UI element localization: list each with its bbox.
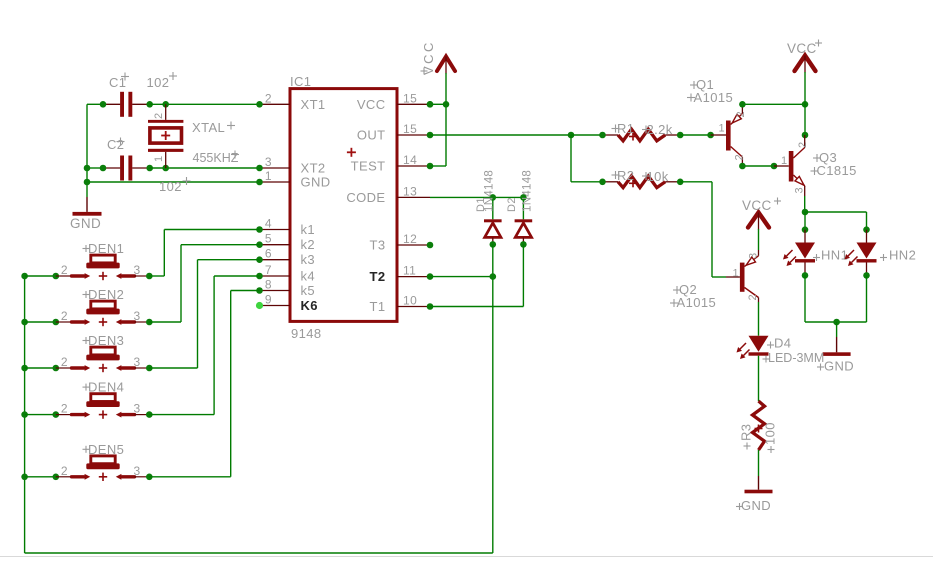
pin name XT2 [301,161,326,176]
svg-text:R3: R3 [739,424,754,441]
node pin 12 right [427,242,434,249]
svg-text:1N4148: 1N4148 [522,170,534,212]
wire rail to DEN2 [25,321,56,323]
node VCC pin15 a [427,101,434,108]
light arrows D4 [737,343,750,359]
wire HN1 down [804,275,806,322]
label DEN2 [83,287,125,302]
node D1 top junction [490,194,497,201]
label D4 [767,336,791,351]
value 102 of C1 [147,72,178,90]
ground GND bottom [745,476,773,493]
pin 3 label DEN5 [134,464,141,478]
wire vertical down to R2 row [570,135,572,182]
node DEN4 pin2 [53,411,60,418]
svg-text:1: 1 [265,169,272,183]
wire TEST-to-VCC rail [430,165,446,167]
node pin 3 of IC1 [256,165,263,172]
wire DEN1 to IC pin [164,229,259,231]
node Q1 base pin [707,132,714,139]
pin name T1 [370,299,386,314]
value A1015 of Q1 [687,90,733,105]
svg-text:1N4148: 1N4148 [484,170,496,212]
wire button common rail [24,276,26,553]
pin 1 label Q2 [732,268,739,280]
svg-text:A1015: A1015 [694,90,734,105]
pin 1 GND of IC1 [260,169,291,183]
wire XT1 row C1-to-IC [150,103,260,105]
node DEN2 pin3 [146,319,153,326]
svg-text:DEN2: DEN2 [88,287,124,302]
wire VCC right vertical [804,72,806,135]
wire bottom bus [25,552,493,554]
svg-text:2: 2 [61,309,68,323]
svg-text:3: 3 [748,252,760,259]
pin 2 label Q1 collector (rotated) [734,154,746,161]
value 102 of C2 [159,177,191,194]
wire rail to DEN5 [25,476,56,478]
label R1 [612,121,635,136]
wire LED bottom rail [805,321,867,323]
node pin 8 of IC1 [256,287,263,294]
node R2 left pin [599,179,606,186]
label XTAL [192,120,235,135]
wire Q2 collector to D4 [758,302,760,336]
pin 11 of IC1 right [397,264,430,278]
label GND bottom [736,498,771,513]
node pin 7 of IC1 [256,273,263,280]
wire DEN3 column up [197,260,199,368]
svg-text:102: 102 [147,75,170,90]
node pin 6 of IC1 [256,256,263,263]
svg-text:12: 12 [403,232,417,246]
svg-text:2: 2 [61,355,68,369]
wire DEN1 to column [149,275,164,277]
transistor Q2 A1015 [726,250,759,302]
value C1815 of Q3 [811,163,857,178]
svg-text:5: 5 [265,232,272,246]
svg-text:k2: k2 [301,237,316,252]
wire D2 bottom vertical [522,244,524,306]
pin name k5 [301,283,316,298]
svg-text:GND: GND [741,498,771,513]
svg-text:2.2k: 2.2k [647,122,673,137]
wire IC GND pin row [87,181,260,183]
node HN2 anode pin [863,226,870,233]
svg-text:R2: R2 [617,168,634,183]
svg-text:10: 10 [403,294,417,308]
node pin 11 right [427,273,434,280]
wire R2 to corner [680,181,712,183]
pin name TEST [351,159,386,174]
pin 15 of IC1 right [397,122,430,136]
svg-text:455KHZ: 455KHZ [193,151,239,165]
wire R3 to GND [758,450,760,476]
value A1015 of Q2 [670,295,716,310]
pin 2 label Q3 collector (rotated) [797,141,809,148]
node Q3 emitter junction [802,209,809,216]
label GND right [817,359,854,374]
wire rail to DEN1 [25,275,56,277]
label DEN5 [83,442,125,457]
svg-text:XT1: XT1 [301,97,326,112]
supply VCC top [437,57,455,74]
label HN1 [813,248,848,263]
value 1N4148 of D2 (rotated) [522,170,534,212]
node DEN3 pin3 [146,365,153,372]
svg-text:DEN1: DEN1 [88,241,124,256]
node rail-C2 junction [84,165,91,172]
transistor Q3 C1815 [774,135,805,196]
wire CODE pin13 [430,196,523,198]
svg-text:7: 7 [265,263,272,277]
svg-text:VCC: VCC [421,40,436,75]
pushbutton DEN5 [56,456,150,481]
node Q1 collector [739,163,746,170]
label Q3 [813,150,837,165]
wire HN2 corner down [866,212,868,230]
svg-text:15: 15 [403,91,417,105]
node Q3 collector junction [802,132,809,139]
node XTAL pin1 junction [162,165,169,172]
svg-text:DEN4: DEN4 [88,380,124,395]
wire DEN4 to column [149,414,214,416]
label VCC mid [742,198,781,214]
wire D2 top lead [522,197,524,219]
svg-text:k4: k4 [301,269,316,284]
pin name OUT [357,128,386,143]
svg-text:3: 3 [134,263,141,277]
pin 2 label DEN3 [61,355,68,369]
svg-text:2: 2 [747,294,759,301]
wire D1 bottom vertical to bottom bus [492,244,494,553]
svg-text:XT2: XT2 [301,161,326,176]
label IC1 [290,74,311,89]
wire XT2 row C2-to-IC [150,167,260,169]
node Q3 base pin [771,163,778,170]
svg-text:2: 2 [61,464,68,478]
svg-text:HN1: HN1 [821,248,848,263]
node C1 left pin [100,101,107,108]
wire VCC top vertical [445,73,447,166]
node R1 left pin [599,132,606,139]
svg-text:D2: D2 [506,197,518,212]
svg-text:13: 13 [403,184,417,198]
node DEN5 pin2 [53,474,60,481]
wire VCC-to-pin15 [430,103,446,105]
svg-text:3: 3 [134,309,141,323]
svg-text:1: 1 [153,155,165,162]
ground GND right [823,322,851,356]
svg-text:K6: K6 [301,298,318,313]
pin 13 of IC1 right [397,184,430,198]
pin 14 of IC1 right [397,153,430,167]
label C2 [107,137,125,152]
pushbutton DEN3 [56,347,150,372]
label Q2 [673,282,697,297]
node pin 9 unconnected (bright) [256,302,263,309]
node pin 5 of IC1 [256,241,263,248]
supply VCC right [795,56,816,73]
node R1 right pin [677,132,684,139]
svg-text:8: 8 [265,278,272,292]
node C2 right pin [146,165,153,172]
svg-text:GND: GND [824,359,854,374]
svg-text:k1: k1 [301,222,316,237]
node DEN1 pin3 [146,273,153,280]
wire into Q2 base [712,276,726,278]
wire to R1 left pin [571,134,603,136]
node D2 bottom [520,241,527,248]
pin 3 label DEN4 [134,402,141,416]
node rail DEN4 [21,411,28,418]
wire T1 pin10 row [430,306,523,308]
svg-text:k3: k3 [301,252,316,267]
node DEN1 pin2 [53,273,60,280]
svg-text:102: 102 [159,179,182,194]
svg-text:DEN3: DEN3 [88,333,124,348]
resistor R1 2.2k [603,129,681,141]
label D2 (rotated) [506,197,518,212]
node XTAL pin2 junction [162,101,169,108]
node pin 2 of IC1 [256,101,263,108]
value 100 of R3 (rotated) [763,422,778,453]
svg-text:3: 3 [134,402,141,416]
svg-text:GND: GND [70,216,101,231]
label HN2 [880,248,916,263]
wire DEN4 to IC pin [214,275,259,277]
pin 2 label of XTAL [153,112,165,119]
pin 2 label DEN1 [61,263,68,277]
pin 7 k4 of IC1 [260,263,291,277]
node pin 14 right [427,163,434,170]
node T2-D1 junction [490,273,497,280]
label VCC top (rotated) [421,40,437,75]
pin name k4 [301,269,316,284]
node HN1 anode pin [802,226,809,233]
svg-text:3: 3 [134,355,141,369]
pin name GND [301,175,331,190]
label R3 (rotated) [739,424,754,450]
LED HN2 [857,230,877,276]
svg-text:T1: T1 [370,299,386,314]
wire DEN2 to IC pin [181,244,260,246]
wire DEN5 column up [230,291,232,477]
value LED-3MM of D4 [763,351,825,365]
svg-text:2: 2 [797,141,809,148]
LED HN1 [795,230,815,276]
svg-text:1: 1 [732,268,739,280]
wire T2 pin11 to D1 column [430,276,493,278]
node R2 right pin [677,179,684,186]
svg-text:9: 9 [265,293,272,307]
label Q1 [690,77,714,92]
pin 2 label DEN2 [61,309,68,323]
pin 1 label Q1 [718,123,725,135]
svg-text:2: 2 [734,154,746,161]
wire DEN4 column up [213,276,215,415]
svg-text:15: 15 [403,122,417,136]
wire XT1 row rail-to-C1 [87,103,103,105]
svg-text:3: 3 [265,155,272,169]
svg-text:DEN5: DEN5 [88,442,124,457]
frame border line bottom [0,556,933,558]
svg-text:4: 4 [265,217,272,231]
svg-text:R1: R1 [617,121,634,136]
pin name k2 [301,237,316,252]
node D1 bottom [490,241,497,248]
wire DEN5 to IC pin [231,290,260,292]
svg-text:XTAL: XTAL [192,120,225,135]
pin 3 label Q3 emitter (rotated) [794,187,806,194]
pin name XT1 [301,97,326,112]
wire R2 row from vertical [571,181,603,183]
node pin 4 of IC1 [256,226,263,233]
wire R2 vertical to Q2 base [711,182,713,277]
capacitor C2 [103,156,150,181]
value 10k [642,169,669,184]
LED D4 [749,336,769,401]
wire DEN2 column up [180,245,182,322]
pin 3 label DEN3 [134,355,141,369]
node DEN4 pin3 [146,411,153,418]
node DEN2 pin2 [53,319,60,326]
pin name VCC [357,97,386,112]
svg-text:1: 1 [781,155,788,167]
value 9148 [291,326,322,341]
node rail DEN2 [21,319,28,326]
svg-text:2: 2 [735,111,747,118]
node D2 top junction [520,194,527,201]
node HN1 cathode pin [802,272,809,279]
label DEN3 [83,333,125,348]
node DEN3 pin2 [53,365,60,372]
wire DEN3 to column [149,367,197,369]
wire XT2 row rail-to-C2 [87,167,103,169]
wire VCC mid down [758,229,760,250]
resistor R3 100 [753,401,765,450]
pin 2 label Q1 emitter (rotated) [735,111,747,118]
pin name T3 [370,238,386,253]
node rail DEN1 [21,273,28,280]
pin 3 XT2 of IC1 [260,155,291,169]
ground GND left [70,197,102,231]
pin 3 label DEN1 [134,263,141,277]
wire rail to DEN4 [25,414,56,416]
supply VCC mid [748,213,769,230]
svg-text:2: 2 [265,91,272,105]
crystal XTAL [148,104,183,168]
pin 1 label Q3 [781,155,788,167]
light arrows HN1 [783,250,796,266]
node DEN5 pin3 [146,474,153,481]
svg-text:T2: T2 [370,269,386,284]
pin name K6 (bold) [301,298,318,313]
svg-text:IC1: IC1 [290,74,311,89]
svg-text:CODE: CODE [346,190,385,205]
svg-text:1: 1 [718,123,725,135]
origin cross IC1 [347,148,356,157]
svg-text:6: 6 [265,247,272,261]
svg-text:GND: GND [301,175,331,190]
node HN2 cathode pin [863,272,870,279]
node C2 left pin [100,165,107,172]
pin 2 XT1 of IC1 [260,91,291,105]
svg-text:3: 3 [794,187,806,194]
svg-text:2: 2 [61,402,68,416]
pin name k1 [301,222,316,237]
label VCC right [787,40,822,57]
node pin 10 right [427,303,434,310]
wire DEN1 column up [163,230,165,277]
wire HN1 top stub [804,212,806,230]
wire Q3 emitter down [804,196,806,212]
wire DEN5 to column [149,476,230,478]
transistor Q1 A1015 [711,104,743,166]
pin 1 label of XTAL [153,155,165,162]
light arrows HN2 [845,250,858,266]
pin 2 label DEN4 [61,402,68,416]
node rail DEN3 [21,365,28,372]
pin name CODE [346,190,385,205]
svg-text:HN2: HN2 [889,248,916,263]
svg-text:3: 3 [134,464,141,478]
wire OUT pin15 to R1 [430,134,571,136]
svg-text:D4: D4 [774,336,791,351]
node C1 right pin [146,101,153,108]
svg-text:14: 14 [403,153,417,167]
value 1N4148 of D1 (rotated) [484,170,496,212]
resistor R2 10k [603,176,681,188]
wire emitter to HN2 top [805,211,867,213]
pin 2 label Q2 collector (rotated) [747,294,759,301]
wire rail to DEN3 [25,367,56,369]
pin 3 label Q2 emitter (rotated) [748,252,760,259]
svg-text:2: 2 [61,263,68,277]
node pin 15 right [427,132,434,139]
svg-text:9148: 9148 [291,326,322,341]
diode D2 1N4148 [515,219,533,244]
wire R1 to Q1 base [680,134,710,136]
value 2.2k [642,122,673,137]
node rail DEN5 [21,474,28,481]
node rail-GND junction [84,179,91,186]
node pin 15 right [427,101,434,108]
wire GND rail vertical left [86,104,88,197]
wire Q1 emitter to VCC rail [742,103,805,105]
pushbutton DEN2 [56,301,150,326]
pin 6 k3 of IC1 [260,247,291,261]
node VCC rail top junction [802,101,809,108]
wire D1 top lead [492,197,494,219]
node pin 1 of IC1 [256,179,263,186]
svg-text:C1: C1 [109,75,126,90]
label DEN4 [83,380,125,395]
pushbutton DEN4 [56,394,150,419]
wire DEN3 to IC pin [198,259,260,261]
label R2 [612,168,635,183]
pin 2 label DEN5 [61,464,68,478]
wire Q1 collector to Q3 base [742,165,774,167]
svg-text:T3: T3 [370,238,386,253]
capacitor C1 [103,92,150,117]
pin name T2 (bold) [370,269,386,284]
pin 9 K6 of IC1 [260,293,291,307]
svg-text:2: 2 [153,112,165,119]
node LED rail GND junction [833,319,840,326]
pin 10 of IC1 right [397,294,430,308]
svg-text:TEST: TEST [351,159,386,174]
